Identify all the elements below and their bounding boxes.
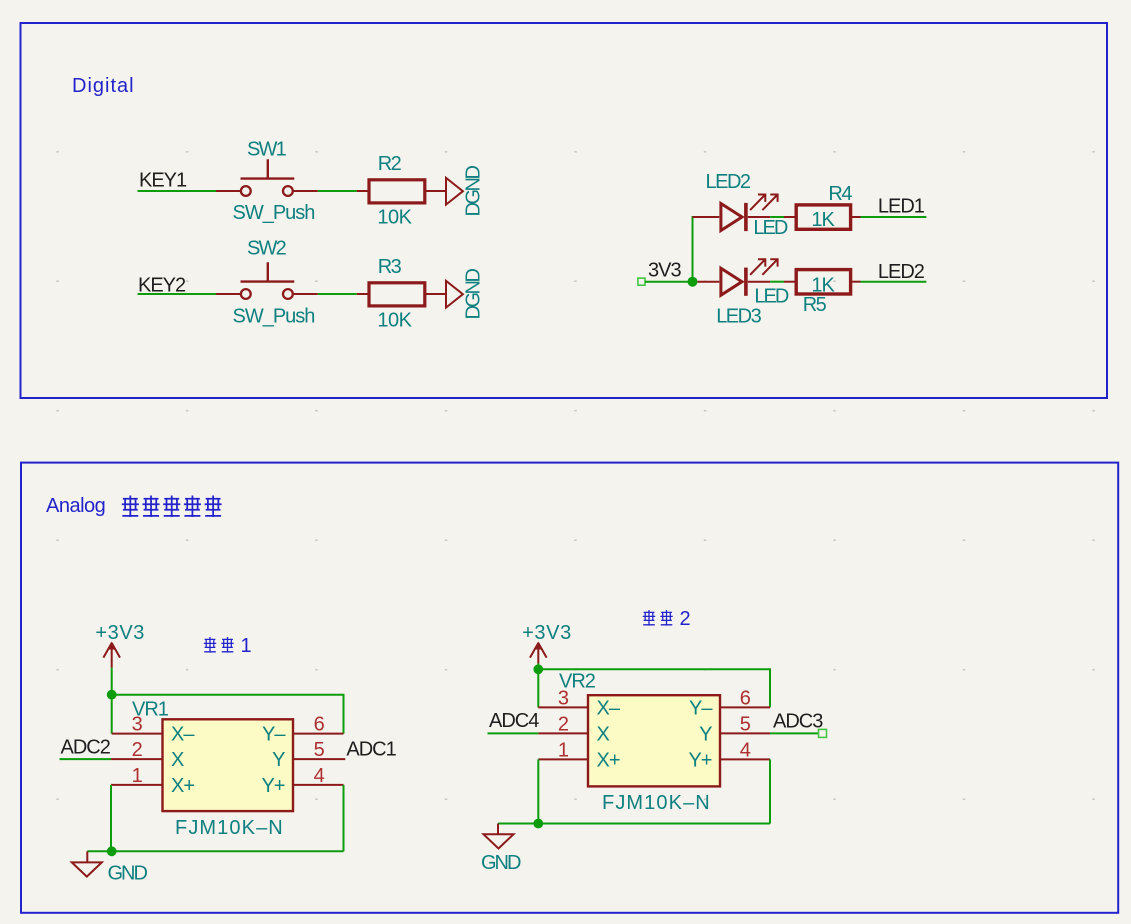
- svg-text:3V3: 3V3: [648, 260, 681, 282]
- pin 5 of VR1: [293, 739, 345, 761]
- svg-text:Analog: Analog: [46, 495, 105, 517]
- value 1K of R5: [811, 274, 835, 296]
- svg-text:4: 4: [314, 765, 325, 787]
- svg-text:GND: GND: [481, 852, 521, 874]
- text Digital: [72, 75, 135, 97]
- svg-text:X: X: [597, 723, 610, 745]
- svg-text:LED2: LED2: [878, 261, 925, 283]
- svg-text:Y+: Y+: [261, 775, 284, 797]
- svg-text:1: 1: [132, 765, 143, 787]
- svg-text:SW_Push: SW_Push: [233, 202, 315, 224]
- reference VR2: [559, 670, 596, 692]
- switch SW1: [216, 159, 318, 196]
- wire KEY2 to SW2: [138, 293, 217, 295]
- svg-text:3: 3: [558, 687, 569, 709]
- svg-text:R5: R5: [803, 294, 827, 316]
- wire junction to LED3: [698, 281, 720, 283]
- wire pin1 VR1 down to ground rail: [87, 785, 343, 851]
- svg-text:ADC2: ADC2: [61, 737, 111, 759]
- svg-text:LED1: LED1: [878, 195, 925, 217]
- svg-text:X+: X+: [171, 775, 194, 797]
- value FJM10K-N of VR1: [175, 817, 284, 839]
- svg-text:LED3: LED3: [716, 305, 761, 327]
- junction VR2 top: [533, 664, 543, 674]
- wire R2 to DGND: [425, 190, 446, 192]
- wire pin5 VR2 to ADC3 end: [770, 729, 827, 737]
- svg-text:1K: 1K: [811, 209, 835, 231]
- svg-text:Y: Y: [272, 749, 285, 771]
- value 10K of R2: [377, 207, 412, 229]
- svg-text:LED: LED: [753, 217, 787, 239]
- grid dots: [56, 151, 1095, 800]
- wire junction down to pin3 VR2: [537, 669, 539, 707]
- wire pin1 VR2 down to ground rail: [498, 759, 770, 823]
- wire R3 to DGND: [425, 293, 446, 295]
- svg-text:5: 5: [740, 713, 751, 735]
- reference R5: [803, 294, 827, 316]
- wire +3V3 down to junction (VR1): [111, 668, 113, 695]
- value FJM10K-N of VR2: [602, 792, 711, 814]
- svg-text:KEY1: KEY1: [139, 170, 187, 192]
- node ADC4: [489, 710, 539, 732]
- switch SW2: [216, 262, 318, 299]
- svg-text:R2: R2: [378, 153, 402, 175]
- power symbol DGND (row 1): [446, 166, 485, 217]
- text 摇杆1: [204, 635, 252, 657]
- wire LED2 to R4: [770, 216, 796, 218]
- reference VR1: [132, 698, 169, 720]
- svg-text:Digital: Digital: [72, 75, 135, 97]
- svg-text:SW1: SW1: [247, 139, 287, 161]
- svg-text:LED2: LED2: [706, 171, 751, 193]
- svg-text:X–: X–: [171, 724, 195, 746]
- pin 2 of VR1: [111, 739, 163, 761]
- wire 3V3 to junction: [645, 281, 693, 283]
- pin 6 of VR1: [293, 714, 344, 736]
- wire top rail VR2: [538, 669, 770, 707]
- wire ADC2 to pin2 VR1: [60, 758, 112, 760]
- text Analog 模拟量输入: [46, 495, 222, 517]
- value SW_Push of SW2: [233, 305, 315, 327]
- reference LED2: [706, 171, 751, 193]
- value LED of LED3: [754, 286, 788, 308]
- svg-text:LED: LED: [754, 286, 788, 308]
- pin 2 of VR2: [538, 713, 588, 735]
- potentiometer joystick VR1 body: [163, 719, 294, 811]
- power symbol +3V3 (VR2): [522, 622, 572, 664]
- svg-text:SW_Push: SW_Push: [233, 305, 315, 327]
- value 10K of R3: [377, 310, 412, 332]
- wire KEY1 to SW1: [138, 190, 217, 192]
- svg-text:+3V3: +3V3: [95, 622, 145, 644]
- node ADC2: [61, 737, 111, 759]
- value SW_Push of SW1: [233, 202, 315, 224]
- pin names VR1: [171, 724, 286, 797]
- svg-text:1K: 1K: [811, 274, 835, 296]
- svg-text:10K: 10K: [377, 207, 412, 229]
- resistor R3: [369, 283, 425, 306]
- svg-text:5: 5: [314, 739, 325, 761]
- reference SW2: [247, 238, 287, 260]
- value 1K of R4: [811, 209, 835, 231]
- svg-text:2: 2: [680, 608, 691, 630]
- svg-text:+3V3: +3V3: [522, 622, 572, 644]
- junction VR1 ground: [107, 846, 117, 856]
- sheet frame Digital section: [21, 23, 1108, 398]
- wire top rail VR1: [112, 695, 344, 734]
- reference R2: [378, 153, 402, 175]
- junction VR2 ground: [533, 819, 543, 829]
- node KEY1: [139, 170, 187, 192]
- svg-text:1: 1: [558, 739, 569, 761]
- svg-text:GND: GND: [108, 862, 148, 884]
- svg-text:R4: R4: [828, 183, 852, 205]
- reference SW1: [247, 139, 287, 161]
- pin 3 of VR2: [538, 687, 588, 709]
- resistor R5: [796, 270, 850, 294]
- resistor R2: [369, 180, 425, 203]
- svg-text:R3: R3: [378, 256, 402, 278]
- power symbol GND (VR1): [72, 851, 148, 884]
- svg-text:2: 2: [558, 713, 569, 735]
- reference R3: [378, 256, 402, 278]
- led LED3: [721, 259, 778, 296]
- svg-text:FJM10K–N: FJM10K–N: [175, 817, 284, 839]
- wire SW2 to R3: [318, 293, 369, 295]
- node ADC1: [346, 738, 396, 760]
- svg-text:ADC3: ADC3: [773, 711, 823, 733]
- reference R4: [828, 183, 852, 205]
- pin 4 of VR1: [293, 765, 344, 787]
- svg-text:Y: Y: [699, 723, 712, 745]
- junction VR1 top: [107, 690, 117, 700]
- pin 1 of VR2: [538, 739, 588, 761]
- svg-text:6: 6: [314, 714, 325, 736]
- node KEY2: [138, 275, 186, 297]
- text 摇杆2: [643, 608, 691, 630]
- junction at 3V3 tee: [688, 277, 698, 287]
- resistor R4: [796, 205, 850, 229]
- svg-text:2: 2: [132, 739, 143, 761]
- svg-text:X–: X–: [597, 697, 621, 719]
- power symbol DGND (row 2): [446, 269, 485, 320]
- svg-text:3: 3: [132, 714, 143, 736]
- wire SW1 to R2: [318, 190, 369, 192]
- wire junction down to pin3 VR1: [111, 695, 113, 734]
- svg-text:Y+: Y+: [688, 749, 711, 771]
- wire R5 to LED2 label: [851, 281, 927, 283]
- svg-text:Y–: Y–: [689, 697, 713, 719]
- svg-text:4: 4: [740, 739, 751, 761]
- svg-text:ADC1: ADC1: [346, 738, 396, 760]
- node ADC3: [773, 711, 823, 733]
- svg-text:DGND: DGND: [463, 166, 485, 217]
- power symbol +3V3 (VR1): [95, 622, 145, 668]
- reference LED3: [716, 305, 761, 327]
- pin 5 of VR2: [720, 713, 770, 735]
- svg-text:Y–: Y–: [262, 724, 286, 746]
- wire R4 to LED1 label: [851, 216, 927, 218]
- node LED1: [878, 195, 925, 217]
- node LED2: [878, 261, 925, 283]
- svg-text:10K: 10K: [377, 310, 412, 332]
- power symbol GND (VR2): [481, 824, 521, 874]
- node 3V3: [638, 260, 682, 286]
- wire ADC4 to pin2 VR2: [488, 732, 539, 734]
- pin 3 of VR1: [112, 714, 163, 736]
- pin 6 of VR2: [720, 687, 770, 709]
- svg-text:DGND: DGND: [463, 269, 485, 320]
- svg-text:1: 1: [241, 635, 252, 657]
- led LED2: [693, 195, 778, 232]
- wire +3V3 down to junction (VR2): [537, 664, 539, 670]
- svg-text:6: 6: [740, 687, 751, 709]
- pin 4 of VR2: [720, 739, 770, 761]
- sheet frame Analog section: [21, 463, 1118, 913]
- wire junction up to LED2 row: [693, 217, 695, 282]
- svg-text:FJM10K–N: FJM10K–N: [602, 792, 711, 814]
- svg-text:X+: X+: [597, 749, 620, 771]
- svg-text:SW2: SW2: [247, 238, 287, 260]
- wire LED3 to R5: [770, 281, 796, 283]
- value LED of LED2: [753, 217, 787, 239]
- pin names VR2: [597, 697, 714, 771]
- svg-text:ADC4: ADC4: [489, 710, 539, 732]
- pin 1 of VR1: [111, 765, 163, 787]
- svg-text:X: X: [171, 749, 184, 771]
- potentiometer joystick VR2 body: [588, 695, 720, 786]
